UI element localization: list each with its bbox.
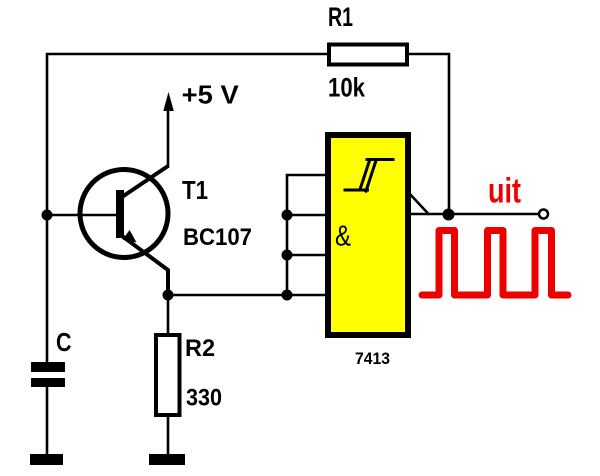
svg-text:T1: T1	[182, 175, 208, 205]
svg-text:R2: R2	[185, 335, 215, 362]
svg-text:BC107: BC107	[183, 224, 252, 251]
svg-text:+5 V: +5 V	[182, 79, 240, 109]
svg-text:&: &	[335, 221, 351, 253]
svg-text:R1: R1	[328, 2, 353, 32]
svg-text:uit: uit	[488, 172, 521, 211]
svg-text:C: C	[56, 327, 72, 357]
svg-text:10k: 10k	[328, 72, 366, 102]
svg-text:330: 330	[186, 384, 222, 411]
svg-text:7413: 7413	[355, 349, 390, 368]
